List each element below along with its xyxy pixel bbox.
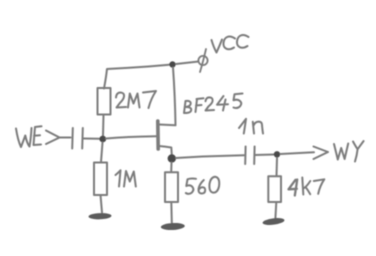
transistor Q BF245 channel bar (156, 121, 160, 149)
label 1n (239, 119, 263, 134)
label 560 (186, 177, 219, 194)
VCC terminal slash (200, 49, 206, 72)
wire 1n cap to output node (255, 154, 274, 157)
label 4k7 (289, 178, 325, 196)
transistor source lead (159, 146, 172, 155)
wire output node to arrow (281, 152, 315, 154)
wire capacitor to gate node (84, 138, 101, 140)
label VCC (212, 35, 249, 52)
resistor R 1M (94, 163, 107, 196)
node output junction (274, 151, 280, 157)
input arrow (46, 131, 60, 145)
wire 4k7 bottom to ground (274, 202, 277, 219)
wire gate node to JFET gate (106, 136, 156, 138)
resistor R 2M7 (98, 88, 111, 115)
label WE (16, 126, 42, 147)
capacitor C 1n (245, 147, 254, 165)
wire source node to 1n cap (176, 155, 244, 158)
ground G2 (161, 222, 185, 230)
ground G1 (88, 213, 111, 220)
ground G3 (262, 217, 285, 226)
wire junction to VCC terminal (176, 62, 199, 65)
label BF245 (184, 94, 243, 114)
resistor R 560 (165, 172, 178, 202)
capacitor C-in (72, 128, 83, 149)
node gate junction (99, 136, 106, 143)
wire 1M bottom to ground (101, 195, 103, 213)
node source junction (168, 154, 176, 162)
wire output node down to 4k7 (276, 158, 279, 176)
wire 2M7 bottom to gate node (102, 115, 105, 136)
transistor drain lead (159, 68, 176, 126)
wire source node down to 560 (170, 163, 172, 173)
wire arrow to capacitor (60, 137, 71, 139)
wire top loop from 2M7 top to VCC junction (104, 65, 172, 89)
wire gate node down to 1M (101, 143, 103, 163)
resistor R 4k7 (268, 176, 281, 202)
VCC terminal circle (198, 56, 207, 65)
label 1M (116, 170, 136, 186)
node VCC junction (169, 61, 175, 67)
output arrow (314, 147, 329, 160)
wire 560 bottom to ground (170, 202, 173, 223)
label WY (334, 141, 364, 162)
label 2M7 (116, 91, 156, 108)
